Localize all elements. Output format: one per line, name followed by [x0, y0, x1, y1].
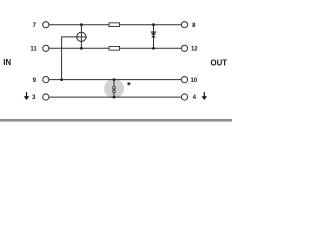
terminal 4: [181, 94, 187, 100]
svg-text:IN: IN: [3, 58, 11, 67]
terminal 11: [43, 45, 49, 51]
wire vertical through G2 (row3 to row4): [113, 80, 115, 98]
terminal 8: [181, 22, 187, 28]
terminal 9: [43, 77, 49, 83]
svg-text:12: 12: [191, 47, 198, 53]
junction row1/G1: [80, 23, 83, 26]
wire row 4 (terminal 3 to 4): [49, 96, 182, 98]
wire vertical TVS branch (row1 to row2): [153, 25, 155, 49]
wire row 1 (terminal 7 to 8): [49, 24, 182, 26]
gas arrester G2 (shield GDT, gray highlight disc): [104, 79, 124, 99]
svg-text:OUT: OUT: [211, 59, 228, 68]
section divider bar (cropped table edge at bottom): [0, 119, 232, 122]
resistor R1: [109, 23, 120, 27]
junction row2/G1: [80, 47, 83, 50]
junction row3/stub: [60, 78, 63, 81]
wire vertical through arrester G1 (row1 to row2): [80, 25, 82, 49]
junction row1/D1: [152, 23, 155, 26]
resistor R2: [109, 46, 120, 50]
ground arrow left (at terminal 3): [24, 92, 30, 100]
wire stub from G1 left arm down to row 3: [62, 37, 87, 80]
terminal 12: [181, 45, 187, 51]
terminal 3: [43, 94, 49, 100]
suppressor diode D1 (bidirectional TVS): [151, 32, 156, 38]
junction row2/D1: [152, 47, 155, 50]
gas arrester G1 (circle with cross): [76, 31, 87, 42]
svg-text:11: 11: [30, 47, 37, 53]
wire row 3 (terminal 9 to 10): [49, 79, 182, 81]
junction row4/G2: [113, 96, 116, 99]
spark gap electrodes inside G2: [113, 86, 116, 89]
svg-text:10: 10: [190, 78, 197, 84]
junction row3/G2: [113, 78, 116, 81]
ground arrow right (at terminal 4): [202, 92, 208, 100]
terminal 10: [181, 77, 187, 83]
terminal 7: [43, 22, 49, 28]
wire row 2 (terminal 11 to 12): [49, 47, 182, 49]
svg-text:*: *: [127, 80, 131, 91]
